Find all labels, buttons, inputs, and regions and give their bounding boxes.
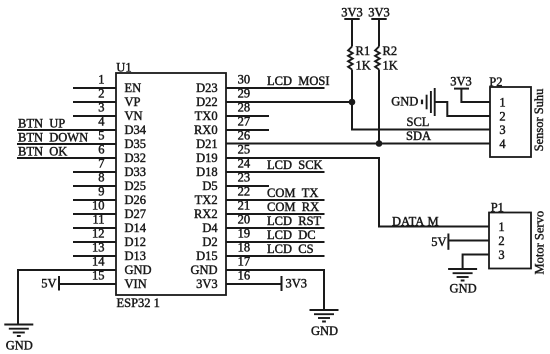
svg-text:D21: D21 (196, 137, 218, 151)
svg-text:1K: 1K (356, 59, 371, 73)
svg-text:3: 3 (499, 123, 505, 137)
svg-text:3V3: 3V3 (286, 277, 308, 291)
ground symbol GND at P1 pin 3 (448, 268, 477, 270)
wire U1 pin 26 (D21) net SDA to P2 pin 4 (226, 143, 490, 145)
wire U1 pin 27 (RX0) stub (226, 129, 269, 131)
svg-text:D32: D32 (125, 151, 147, 165)
svg-text:LCD CS: LCD CS (267, 242, 314, 256)
svg-text:Motor Servo: Motor Servo (533, 211, 547, 275)
svg-text:2: 2 (499, 109, 505, 123)
svg-text:1: 1 (499, 95, 505, 109)
wire U1 pin 18 (D15) net LCD CS (226, 255, 325, 257)
svg-text:D13: D13 (125, 249, 147, 263)
wire U1 pin 9 (D26) stub (73, 199, 116, 201)
svg-text:TX0: TX0 (195, 109, 218, 123)
wire R1 to D22 junction and SCL (352, 70, 490, 130)
connector P2 body (490, 87, 531, 157)
svg-text:16: 16 (238, 269, 251, 283)
svg-text:3: 3 (98, 101, 104, 115)
svg-text:8: 8 (98, 171, 104, 185)
svg-text:4: 4 (499, 137, 506, 151)
svg-text:LCD SCK: LCD SCK (267, 158, 323, 172)
svg-text:1K: 1K (383, 59, 398, 73)
svg-text:D25: D25 (125, 179, 147, 193)
power port 5V at U1 pin 15 (VIN) (59, 283, 116, 285)
svg-text:D12: D12 (125, 235, 147, 249)
svg-text:RX2: RX2 (194, 207, 218, 221)
svg-text:LCD DC: LCD DC (267, 228, 316, 242)
svg-text:VN: VN (125, 109, 143, 123)
svg-text:9: 9 (98, 185, 104, 199)
svg-text:26: 26 (238, 129, 251, 143)
svg-text:DATA M: DATA M (392, 215, 439, 229)
svg-text:U1: U1 (116, 60, 131, 74)
svg-text:10: 10 (92, 199, 105, 213)
ground symbol GND at U1 pin 14 (4, 324, 33, 326)
wire U1 pin 4 (D34) net BTN UP (17, 129, 116, 131)
wire U1 pin 25 (D19) net DATA M to P1 pin 1 (226, 158, 489, 227)
svg-text:D14: D14 (125, 221, 147, 235)
wire U1 pin 10 (D27) stub (73, 213, 116, 215)
resistor R1 (348, 47, 353, 70)
svg-text:30: 30 (238, 73, 251, 87)
junction node R1/D22/SCL (349, 99, 356, 106)
svg-text:27: 27 (238, 115, 251, 129)
svg-text:P1: P1 (491, 200, 504, 214)
svg-text:D34: D34 (125, 123, 147, 137)
wire 3V3 to P2 pin 1 (461, 89, 490, 102)
svg-text:22: 22 (238, 185, 251, 199)
svg-text:23: 23 (238, 171, 251, 185)
power port 3V3 at U1 pin 16 (226, 283, 282, 285)
svg-text:1: 1 (498, 220, 504, 234)
svg-text:5V: 5V (41, 277, 56, 291)
svg-text:BTN OK: BTN OK (18, 145, 67, 159)
svg-text:15: 15 (92, 269, 105, 283)
wire U1 pin 28 (TX0) stub (226, 115, 269, 117)
svg-text:D4: D4 (202, 221, 218, 235)
svg-text:3V3: 3V3 (368, 6, 390, 20)
svg-text:13: 13 (92, 241, 105, 255)
svg-text:7: 7 (98, 157, 104, 171)
svg-text:18: 18 (238, 241, 251, 255)
wire GND to P2 pin 2 (435, 102, 490, 116)
svg-text:ESP32 1: ESP32 1 (117, 296, 160, 310)
svg-text:3V3: 3V3 (450, 75, 472, 89)
IC U1 ESP32 body (116, 73, 226, 295)
wire U1 pin 23 (D5) stub (226, 185, 269, 187)
wire U1 pin 19 (D2) net LCD DC (226, 241, 325, 243)
svg-text:TX2: TX2 (195, 193, 218, 207)
svg-text:D33: D33 (125, 165, 147, 179)
svg-text:21: 21 (238, 199, 251, 213)
svg-text:D35: D35 (125, 137, 147, 151)
wire U1 pin 30 (D23) net LCD MOSI (226, 87, 325, 89)
svg-text:D27: D27 (125, 207, 147, 221)
connector P1 body (489, 213, 531, 269)
wire 3V3 to R1 (351, 19, 353, 47)
svg-text:3: 3 (498, 248, 504, 262)
svg-text:D2: D2 (202, 235, 217, 249)
svg-text:GND: GND (311, 324, 338, 338)
svg-text:Sensor Suhu: Sensor Suhu (532, 88, 546, 152)
svg-text:SCL: SCL (407, 115, 430, 129)
svg-text:4: 4 (98, 115, 105, 129)
svg-text:GND: GND (391, 95, 418, 109)
svg-text:20: 20 (238, 213, 251, 227)
svg-text:5: 5 (98, 129, 104, 143)
svg-text:11: 11 (92, 213, 104, 227)
svg-text:17: 17 (238, 255, 251, 269)
svg-text:GND: GND (6, 338, 33, 352)
svg-text:1: 1 (98, 73, 104, 87)
svg-text:24: 24 (238, 157, 251, 171)
svg-text:D26: D26 (125, 193, 147, 207)
wire U1 pin 24 (D18) net LCD SCK (226, 171, 325, 173)
svg-text:EN: EN (125, 81, 142, 95)
svg-text:GND: GND (450, 282, 477, 296)
svg-text:2: 2 (98, 87, 104, 101)
svg-text:6: 6 (98, 143, 104, 157)
svg-text:VP: VP (125, 95, 141, 109)
svg-text:VIN: VIN (125, 277, 147, 291)
svg-text:5V: 5V (431, 235, 446, 249)
wire U1 pin 1 (EN) stub (73, 87, 116, 89)
svg-text:14: 14 (92, 255, 105, 269)
svg-text:SDA: SDA (406, 129, 431, 143)
wire U1 pin 6 (D32) net BTN OK (17, 157, 116, 159)
wire U1 pin 21 (RX2) net COM RX (226, 213, 325, 215)
wire U1 pin 3 (VN) stub (73, 115, 116, 117)
wire P1 pin 3 to ground (463, 255, 489, 270)
svg-text:D15: D15 (196, 249, 218, 263)
wire U1 pin 2 (VP) stub (73, 101, 116, 103)
svg-text:28: 28 (238, 101, 251, 115)
wire U1 pin 20 (D4) net LCD RST (226, 227, 325, 229)
svg-text:BTN DOWN: BTN DOWN (18, 131, 88, 145)
wire U1 pin 11 (D14) stub (73, 227, 116, 229)
wire U1 pin 22 (TX2) net COM TX (226, 199, 325, 201)
svg-text:2: 2 (498, 234, 504, 248)
wire U1 pin 5 (D35) net BTN DOWN (17, 143, 116, 145)
wire U1 pin 7 (D33) stub (73, 171, 116, 173)
wire 3V3 to R2 (378, 19, 380, 47)
wire R2 to SDA junction (378, 70, 380, 144)
svg-text:D23: D23 (196, 81, 218, 95)
svg-text:GND: GND (191, 263, 218, 277)
svg-text:R2: R2 (383, 44, 398, 58)
svg-text:RX0: RX0 (194, 123, 218, 137)
svg-text:D18: D18 (196, 165, 218, 179)
svg-text:19: 19 (238, 227, 251, 241)
wire U1 pin 8 (D25) stub (73, 185, 116, 187)
svg-text:D19: D19 (196, 151, 218, 165)
svg-text:COM TX: COM TX (267, 186, 318, 200)
wire U1 pin 13 (D13) stub (73, 255, 116, 257)
svg-text:12: 12 (92, 227, 105, 241)
svg-text:3V3: 3V3 (341, 6, 363, 20)
svg-text:R1: R1 (356, 44, 371, 58)
resistor R2 (375, 47, 380, 70)
svg-text:25: 25 (238, 143, 251, 157)
wire U1 pin 17 (GND) to ground (226, 270, 324, 310)
svg-text:D22: D22 (196, 95, 218, 109)
svg-text:BTN UP: BTN UP (18, 117, 65, 131)
svg-text:COM RX: COM RX (267, 200, 319, 214)
svg-text:P2: P2 (489, 75, 502, 89)
svg-text:GND: GND (125, 263, 152, 277)
wire U1 pin 12 (D12) stub (73, 241, 116, 243)
svg-text:LCD MOSI: LCD MOSI (267, 74, 330, 88)
svg-text:29: 29 (238, 87, 251, 101)
junction node R2/D21/SDA (376, 140, 383, 147)
svg-text:3V3: 3V3 (196, 277, 218, 291)
ground symbol GND at U1 pin 17 (310, 309, 339, 311)
svg-text:D5: D5 (202, 179, 217, 193)
svg-text:LCD RST: LCD RST (267, 214, 322, 228)
wire U1 pin 14 (GND) to ground (18, 270, 116, 325)
wire U1 pin 29 (D22) to R1 junction (226, 101, 352, 103)
